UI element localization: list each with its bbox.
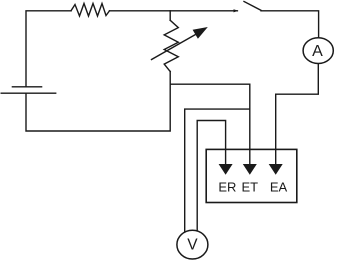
svg-text:EA: EA (270, 180, 288, 195)
wire: voltmeter left lead up and across to ET wire (185, 109, 250, 231)
node: rheostat tap on top wire (169, 11, 171, 20)
terminal triangle EA (269, 164, 283, 175)
voltmeter V1 body (177, 230, 208, 259)
wire: resistor to switch (110, 10, 238, 12)
svg-text:V: V (187, 236, 198, 253)
svg-text:A: A (312, 43, 323, 60)
battery plate long (positive) (1, 92, 56, 94)
wire: battery positive to top-left corner (26, 11, 71, 87)
variable resistor (rheostat) zigzag (164, 20, 178, 71)
terminal triangle ER (219, 164, 233, 175)
wire: switch to ammeter (261, 11, 319, 38)
battery plate short (negative) (12, 86, 41, 88)
switch left contact tip (234, 9, 239, 12)
resistor R1 (71, 4, 110, 17)
rheostat arrow shaft (152, 34, 197, 59)
svg-text:ER: ER (218, 180, 236, 195)
measurement box (206, 149, 297, 202)
ammeter A1 body (303, 38, 333, 64)
rheostat arrowhead (193, 27, 208, 39)
wire: rheostat bottom to battery negative (bottom loop) (26, 72, 170, 132)
wire: junction to ET terminal (170, 84, 250, 164)
switch S1 (open blade) (244, 2, 261, 11)
svg-text:ET: ET (241, 180, 258, 195)
wire: voltmeter right lead up and across to ER terminal (197, 121, 225, 232)
terminal triangle ET (243, 164, 257, 175)
wire: ammeter bottom to EA branch (276, 63, 319, 164)
